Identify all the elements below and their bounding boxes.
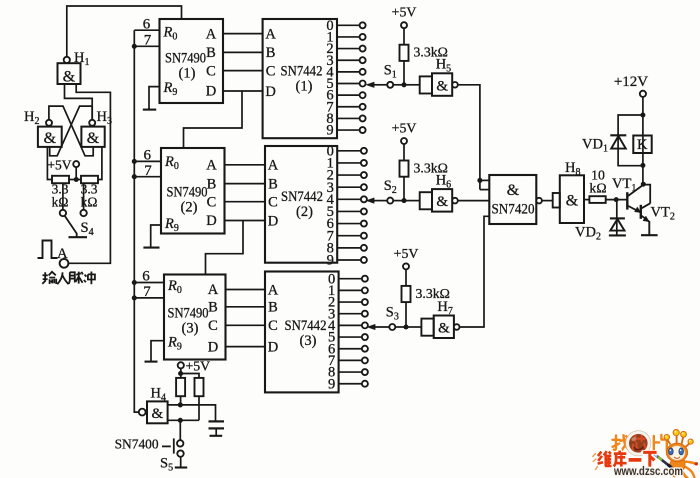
svg-text:6: 6 [142,268,150,284]
svg-text:SN7490: SN7490 [167,185,208,201]
svg-text:C: C [208,318,218,334]
svg-text:www.dzsc.com: www.dzsc.com [613,464,683,478]
svg-text:C: C [268,195,278,211]
svg-text:B: B [268,176,278,192]
svg-text:D: D [206,213,216,229]
svg-text:A: A [206,26,217,42]
svg-text:SN7442: SN7442 [281,189,323,205]
svg-text:C: C [268,318,278,334]
svg-text:(2): (2) [296,204,313,220]
svg-text:+5V: +5V [394,246,419,261]
svg-text:&: & [44,130,57,147]
svg-text:&: & [63,69,76,86]
svg-text:+12V: +12V [614,74,648,90]
svg-text:&: & [566,193,579,210]
svg-text:&: & [436,194,448,210]
svg-text:(3): (3) [182,321,199,337]
svg-text:&: & [507,182,520,199]
svg-text:7: 7 [143,284,151,300]
svg-text:&: & [438,321,450,337]
svg-text:6: 6 [143,17,151,33]
svg-text:6: 6 [143,147,151,163]
svg-text:+5V: +5V [392,121,417,136]
svg-text:B: B [268,300,278,316]
svg-text:kΩ: kΩ [52,195,69,210]
svg-text:B: B [208,300,218,316]
svg-text:(1): (1) [179,66,196,82]
svg-text:D: D [206,84,216,100]
svg-text:+5V: +5V [186,359,211,374]
svg-text:A: A [206,158,217,174]
svg-text:B: B [206,45,216,61]
svg-text:(3): (3) [300,333,317,349]
svg-text:D: D [208,339,218,355]
svg-text:C: C [206,63,216,79]
svg-text:SN7400: SN7400 [115,437,159,452]
svg-text:C: C [266,63,276,79]
svg-text:A: A [268,158,279,174]
svg-text:+5V: +5V [47,157,71,172]
svg-text:&: & [436,78,448,94]
svg-text:9: 9 [328,376,335,392]
svg-text:C: C [207,194,217,210]
svg-text:B: B [207,176,217,192]
svg-text:D: D [268,213,278,229]
svg-text:SN7490: SN7490 [168,306,209,322]
svg-text:&: & [87,130,100,147]
svg-text:(1): (1) [296,78,313,94]
svg-text:B: B [266,45,276,61]
svg-text:A: A [57,246,68,262]
svg-text:9: 9 [327,253,334,269]
svg-text:7: 7 [144,33,152,49]
svg-text:D: D [268,339,278,355]
svg-text:+5V: +5V [392,5,417,20]
svg-text:SN7420: SN7420 [492,202,535,218]
svg-text:SN7490: SN7490 [165,51,206,67]
svg-text:&: & [151,406,163,422]
svg-text:9: 9 [326,123,333,139]
svg-text:A: A [268,282,279,298]
svg-text:(2): (2) [181,200,198,216]
svg-text:D: D [265,84,275,100]
svg-text:7: 7 [144,163,152,179]
svg-text:SN7442: SN7442 [285,318,327,334]
svg-text:K: K [637,137,648,153]
svg-text:A: A [265,26,276,42]
svg-text:kΩ: kΩ [589,181,606,196]
svg-text:A: A [208,282,219,298]
svg-text:SN7442: SN7442 [281,63,323,79]
